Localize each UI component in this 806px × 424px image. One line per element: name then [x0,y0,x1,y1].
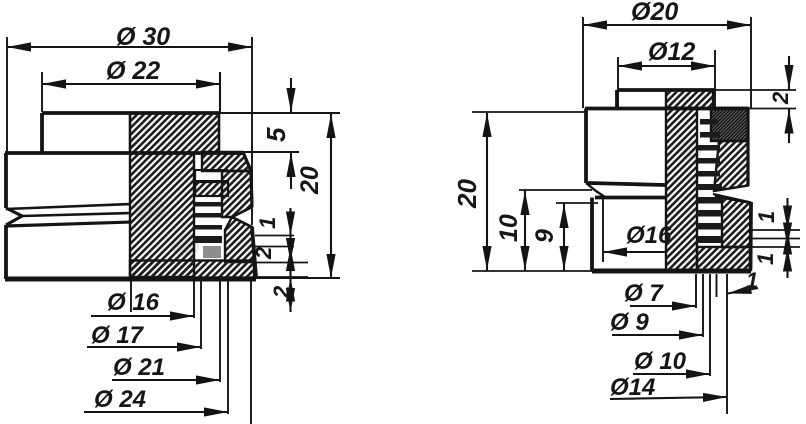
tooth stripe 4 (thick) [194,236,222,243]
hatch: central column section [130,153,194,277]
boss left edge [615,90,619,108]
centerline stub below part [130,278,132,312]
hatch: bottom foot band [130,261,254,278]
hatch dense: flange corner block [711,108,748,141]
dim Ø22: ext right [219,72,221,112]
hatch: bottom band [697,247,751,270]
svg-text:Ø 7: Ø 7 [624,280,664,307]
dim Ø16: internal edge ext [602,198,604,262]
svg-text:Ø 16: Ø 16 [107,289,160,316]
upper body left edge [584,109,588,184]
lower body top face [595,196,666,200]
part outline: right edge upper [251,171,252,207]
lower body right edge [749,202,753,269]
dim 2: line+arrows [788,56,790,143]
hatch: right wall [714,141,748,191]
neck chamfer [586,183,605,197]
hatch: top block Ø22 section [130,113,219,153]
bottom ext verticals right part [695,274,697,308]
svg-text:5: 5 [261,127,291,142]
dim Ø12: line [618,65,715,67]
small dims right side: ext lines [255,235,294,237]
small dims: vertical dim line [289,208,291,312]
hatch: flare below groove [225,217,255,262]
dim 20: line [330,114,332,278]
part outline: left edge lower [4,225,8,279]
dim 9: line [563,203,565,271]
dim Ø21 leader [112,379,220,381]
ext bottom right (for 20) [256,277,340,279]
hatch: right wall [222,171,252,217]
dim Ø22: line [42,83,220,85]
svg-text:Ø20: Ø20 [631,0,678,26]
dim Ø24 leader [84,411,228,413]
right notch edges [713,186,751,203]
lower body left edge [590,198,594,272]
groove notch left [6,208,22,225]
centerline boundary right part [665,90,667,272]
dim Ø22: arrows [42,79,66,88]
svg-text:Ø 30: Ø 30 [116,23,170,51]
dim 20: line [486,112,488,271]
dim Ø20: ext lines [582,17,584,108]
dim 1 bottom right: leader [728,288,759,294]
dim 9: ext line [556,202,598,204]
dim 20 right drawing: ext lines [472,111,586,113]
white tooth outline below bar1 [196,170,228,181]
svg-text:1: 1 [754,211,779,223]
svg-text:Ø 17: Ø 17 [91,322,145,349]
part outline: Ø22 left edge [40,113,44,153]
svg-text:9: 9 [531,229,559,243]
dim Ø17 leader [87,346,201,348]
flange right edge [746,109,749,187]
section boundary centerline [129,113,131,278]
dim Ø7 [630,305,696,307]
dim Ø14 [610,397,727,399]
part outline: step face y153 [5,151,245,155]
dim Ø10 [633,373,710,375]
tooth stripe 3 [194,225,222,230]
tooth left edge [194,169,196,196]
bottom face [592,269,751,274]
dim Ø9 [612,334,703,336]
svg-text:2: 2 [269,285,294,299]
svg-text:Ø14: Ø14 [610,374,655,401]
dim 5: line + arrows [290,78,292,189]
part outline: right chamfer top [243,152,251,171]
svg-text:2: 2 [251,246,276,260]
groove notch right [232,207,252,227]
dim 10: ext line [519,189,592,191]
dim 10: line [524,190,526,271]
dim Ø22: ext left [41,72,43,112]
dim Ø30: ext left [6,37,8,152]
dim Ø12: ext lines [617,57,619,108]
groove top shoulder line [6,204,131,209]
part outline: right flare edge [252,227,256,277]
hatch: rib bar1 [202,152,251,171]
right small dims: vertical line [786,198,788,278]
svg-text:Ø 9: Ø 9 [610,309,649,336]
upper body bottom face [588,183,666,185]
svg-text:Ø16: Ø16 [626,222,672,249]
svg-text:Ø 10: Ø 10 [634,348,687,375]
svg-text:20: 20 [296,166,324,195]
flange top face [585,107,748,111]
ext line step face right (for 5) [245,151,299,153]
right side small dims: ext lines [750,229,800,231]
hatch: rib bar2 [195,182,228,196]
dim Ø30: arrows [7,42,31,51]
svg-text:Ø 22: Ø 22 [106,57,160,85]
svg-text:Ø 21: Ø 21 [113,354,165,381]
dim Ø30: ext right [251,37,253,225]
scan smudge 2 [171,233,199,257]
part outline: bottom face [5,277,256,282]
svg-text:1: 1 [746,268,758,293]
part outline: top face [42,111,219,115]
tooth stripe 1 [194,202,222,207]
dim Ø16 leader [91,315,194,317]
tooth stripe 2 [194,213,222,218]
right part outline: boss top [617,88,714,92]
svg-text:2: 2 [768,91,793,105]
dim Ø16: leader [603,251,666,253]
part outline: left edge upper [4,153,8,208]
hatch: boss section [666,90,713,108]
svg-text:Ø12: Ø12 [648,38,695,66]
groove bottom shoulder line [6,222,131,226]
dim 2 top right: ext lines [715,90,796,109]
hatch: central column [666,108,697,272]
dim Ø20: line [583,24,751,26]
ext line top face right (for 5 and 20) [219,112,340,114]
hatch: flare lower right [715,197,751,248]
lower ext verticals for diameters [193,278,195,318]
groove root line [22,213,131,216]
teeth stripes right part [697,119,722,243]
svg-text:Ø 24: Ø 24 [94,386,146,413]
svg-text:10: 10 [495,214,523,242]
gray block scan smudge [203,246,221,258]
svg-text:20: 20 [452,179,482,209]
svg-text:1: 1 [255,217,280,229]
svg-text:1: 1 [753,253,778,265]
scan smudge 3 [678,140,702,160]
dim Ø30: line [7,46,252,48]
scan smudge 1 [134,196,166,224]
